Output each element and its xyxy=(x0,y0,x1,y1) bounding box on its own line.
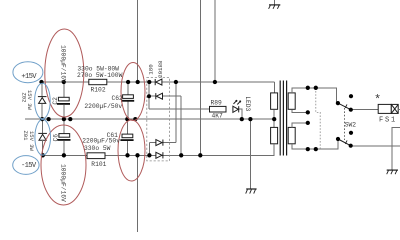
wire primary tap row2 y=112.4 xyxy=(292,109,308,112)
wire winding-top vertical x=175.9 xyxy=(175,82,177,143)
wire center-tap ground stem x=250.4 xyxy=(250,119,252,188)
annotation red ellipse E3 around C61 xyxy=(118,120,145,181)
wire D3 cathode row y=142.6 xyxy=(163,142,176,144)
capacitor C6 1000uF/16V xyxy=(57,134,70,140)
junction dots rail A xyxy=(39,80,217,84)
capacitor C62 2200uF/50v xyxy=(121,95,134,101)
wire D3 anode to rail C xyxy=(149,142,156,144)
capacitor C61 2200uF/50v xyxy=(120,134,133,140)
annotation blue ellipse around Z01 xyxy=(35,120,51,156)
transformer center tap wire xyxy=(273,109,275,127)
ground chassis bottom right xyxy=(387,170,398,174)
svg-text:R89: R89 xyxy=(211,100,223,107)
junction dots transformer primary taps xyxy=(306,86,318,152)
svg-text:1000µF/16V: 1000µF/16V xyxy=(60,45,67,83)
svg-text:+15V: +15V xyxy=(21,73,37,81)
transformer primary winding lower-right xyxy=(288,127,295,143)
switch SW2 lower pole xyxy=(338,139,351,146)
wire switch upper to fuse xyxy=(351,109,378,111)
wire primary tap row1 y=87.8 xyxy=(292,88,337,103)
LED3 xyxy=(233,100,241,112)
ground chassis top xyxy=(269,0,281,9)
transformer left column wire to rail C xyxy=(273,144,275,156)
wire rail C (-15V) y=155.3 xyxy=(43,154,274,156)
transformer primary winding upper-right xyxy=(288,93,295,109)
wire rail A (+15V) y=82 xyxy=(42,81,275,83)
capacitor C61 2200uF/50v wires xyxy=(126,119,128,134)
voltage selector dashed links xyxy=(316,88,320,149)
zener Z02 cathode wire xyxy=(41,82,43,97)
transformer secondary winding lower-left xyxy=(271,127,278,143)
annotation red ellipse E1 around C2 xyxy=(45,29,84,117)
wire vertical off-page top to rail C at x=201 xyxy=(199,0,201,155)
svg-text:15V 3W: 15V 3W xyxy=(26,90,33,111)
svg-text:C6: C6 xyxy=(53,134,60,142)
wire primary tap row3 y=122.9 xyxy=(292,123,308,128)
annotation blue ellipse -15V xyxy=(13,156,39,175)
svg-text:-15V: -15V xyxy=(21,162,37,170)
svg-text:180: 180 xyxy=(147,64,154,75)
capacitor C62 2200uF/50v wires xyxy=(127,82,129,95)
switch SW2 contact dots xyxy=(336,94,353,148)
rectifier block dashed box xyxy=(147,78,170,161)
transformer secondary winding upper-left xyxy=(271,93,278,109)
diode D2 (rectifier, cathode left) xyxy=(156,93,163,99)
transformer core xyxy=(280,81,286,156)
wire LED cathode down to rail B xyxy=(239,109,242,119)
wire LED branch y=109.2 xyxy=(148,96,150,109)
wire D2 anode row y=96 to winding bottom xyxy=(162,95,181,97)
diode D3 (rectifier, anode left) xyxy=(156,140,163,146)
diode D4 (rectifier, on rail C, anode left) xyxy=(156,152,163,158)
wire primary tap row4 y=149.1 xyxy=(292,139,338,149)
junction dots rail B xyxy=(40,117,276,121)
zener Z01 cathode wire xyxy=(42,119,44,133)
svg-text:1000µF/16V: 1000µF/16V xyxy=(60,164,67,202)
svg-text:20188: 20188 xyxy=(157,60,164,78)
wire vertical rail C to off-page bottom at x=137.5 xyxy=(137,155,139,232)
switch SW2 upper pole xyxy=(338,103,351,110)
junction dot D2 cathode node xyxy=(147,94,151,98)
svg-text:C2: C2 xyxy=(52,97,59,105)
svg-text:4K7: 4K7 xyxy=(212,112,224,119)
capacitor C2 1000uF/16V xyxy=(57,97,70,104)
svg-text:LED3: LED3 xyxy=(244,96,251,111)
svg-text:SW2: SW2 xyxy=(345,122,357,129)
svg-text:270o 5W-100W: 270o 5W-100W xyxy=(77,72,123,79)
svg-text:Z01: Z01 xyxy=(22,131,29,142)
annotation blue ellipse around Z02 xyxy=(35,83,51,119)
svg-text:330o 5W: 330o 5W xyxy=(84,145,111,152)
junction dots rail C xyxy=(41,153,203,157)
wire D2 cathode to rail A xyxy=(148,82,150,96)
svg-text:FS1: FS1 xyxy=(379,116,397,124)
resistor R89 xyxy=(210,106,227,112)
ground chassis center (transformer CT) xyxy=(246,189,257,194)
resistor R101 xyxy=(87,153,105,159)
svg-text:2200µF/50v: 2200µF/50v xyxy=(82,138,120,145)
svg-text:R101: R101 xyxy=(91,161,106,168)
transformer left column wire from rail A xyxy=(274,82,276,93)
resistor R102 xyxy=(89,79,107,84)
wire fuse to right edge xyxy=(398,109,400,111)
wire vertical off-page top to rail A at x=137.7 xyxy=(137,0,139,82)
wire switch lower to right edge xyxy=(351,145,400,147)
zener Z02 anode wire xyxy=(41,103,43,119)
svg-text:15V 3W: 15V 3W xyxy=(28,131,35,152)
svg-text:2200µF/50v: 2200µF/50v xyxy=(84,103,122,110)
capacitor C2 1000uF/16V wires xyxy=(63,82,65,97)
zener Z01 xyxy=(38,133,47,140)
svg-text:R102: R102 xyxy=(91,86,106,93)
annotation blue ellipse +15V xyxy=(13,62,43,83)
annotation red ellipse E2 around C62 xyxy=(121,63,145,121)
zener Z01 anode wire xyxy=(42,140,44,155)
wire vertical off-page top to rail A at x=214.9 xyxy=(214,0,216,82)
annotation red ellipse E4 around C6 xyxy=(41,125,86,205)
switch SW2 mechanical link dashed xyxy=(344,108,346,140)
svg-text:*: * xyxy=(374,93,381,107)
capacitor C6 1000uF/16V wires xyxy=(63,119,65,134)
wire right edge mains y=127.4 with ground drop xyxy=(392,127,400,169)
fuse FS1 xyxy=(378,104,398,113)
zener Z02 xyxy=(38,97,47,104)
wire rail B (0V center tap) y=119.1 xyxy=(25,118,274,120)
svg-text:C62: C62 xyxy=(112,95,124,102)
diode D1 (rectifier, on rail A, cathode left) xyxy=(155,79,162,85)
